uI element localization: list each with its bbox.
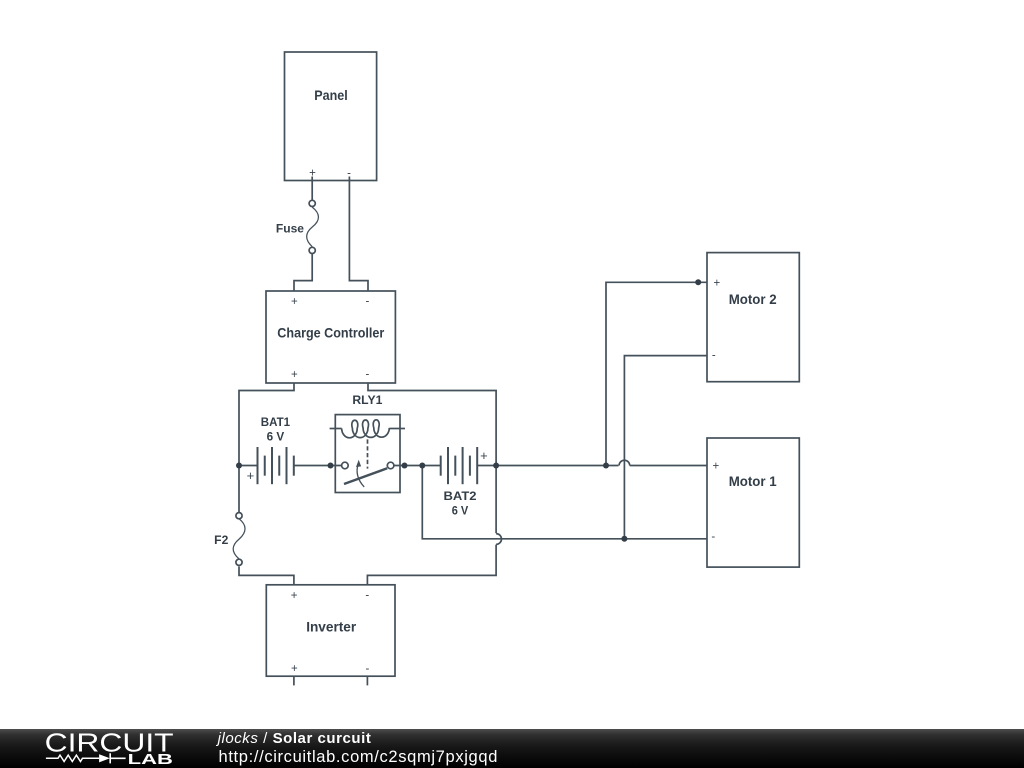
relay actuation arrow [357, 464, 364, 487]
relay switch left pin circle [342, 462, 349, 469]
wire CC- down right rail [368, 383, 496, 466]
relay coil left stub [330, 428, 342, 430]
svg-text:RLY1: RLY1 [352, 395, 383, 407]
svg-text:+: + [291, 296, 298, 308]
svg-text:Motor 1: Motor 1 [729, 473, 777, 489]
fuse Fuse terminal circle bottom [309, 247, 315, 253]
battery BAT2 plates [441, 447, 478, 484]
fuse Fuse wavy element [307, 207, 319, 247]
wire BAT2 to bus toward motors [477, 465, 618, 467]
charge controller box [266, 291, 395, 383]
svg-text:+: + [712, 461, 719, 473]
fuse F2 terminal circle top [236, 513, 242, 519]
svg-text:+: + [480, 448, 488, 463]
wire left rail to BAT1 [239, 465, 258, 467]
node dot relay right [402, 463, 408, 469]
footer bar [0, 729, 1024, 768]
logo diode cathode bar and lead [110, 753, 125, 763]
wire BAT1 to relay left pin [294, 465, 342, 467]
wire Panel+ to fuse [311, 181, 313, 200]
logo resistor zigzag [46, 755, 99, 761]
svg-text:6 V: 6 V [452, 506, 469, 518]
svg-text:+: + [291, 663, 298, 675]
wire CC+ down to left rail [239, 383, 294, 512]
wire right rail to Inverter - [367, 545, 496, 585]
svg-text:F2: F2 [214, 535, 228, 547]
inverter box [266, 585, 395, 676]
svg-text:BAT2: BAT2 [444, 491, 477, 503]
battery BAT1 plates [258, 447, 294, 484]
wire right rail junction down to hop [495, 466, 497, 534]
wire Panel- to Charge Controller - [349, 181, 368, 292]
svg-text:+: + [291, 369, 298, 381]
svg-text:Fuse: Fuse [276, 224, 304, 236]
wire hop bus over motor2 negative wire [619, 460, 630, 465]
pin stub Panel + interior [311, 177, 313, 181]
relay RLY1 box [335, 415, 400, 493]
node dot motor2+ branch on bus [603, 463, 609, 469]
svg-text:-: - [365, 295, 369, 307]
svg-text:-: - [365, 589, 369, 601]
pin Inverter bottom + stub [293, 676, 295, 685]
wire hop right rail over battery loop [496, 534, 501, 545]
node dot BAT2 left branch [419, 463, 425, 469]
wire bus to Motor 1 + [630, 465, 707, 467]
fuse Fuse terminal circle top [309, 200, 315, 206]
svg-text:-: - [365, 369, 369, 381]
node dot motor2- joins battery loop [621, 536, 627, 542]
svg-text:BAT1: BAT1 [261, 417, 291, 429]
wire F2 to Inverter + [239, 566, 294, 584]
svg-text:-: - [365, 663, 369, 675]
node dot BAT1 relay [328, 463, 334, 469]
footer title line [218, 730, 372, 747]
node dot right rail bus [493, 463, 499, 469]
svg-text:+: + [291, 590, 298, 602]
wire BAT2 bottom loop [422, 466, 707, 539]
node dot motor2+ near pin [695, 279, 701, 285]
wire Motor 2 + lead [606, 282, 707, 465]
svg-text:LAB: LAB [128, 752, 173, 768]
svg-text:+: + [247, 468, 255, 483]
motor 1 box [707, 438, 799, 567]
relay coil winding [342, 420, 390, 438]
fuse F2 terminal circle bottom [236, 559, 242, 565]
relay switch blade [344, 468, 387, 484]
svg-text:-: - [711, 531, 715, 543]
relay switch right pin circle [387, 462, 394, 469]
svg-text:Charge Controller: Charge Controller [277, 325, 384, 341]
wire relay right pin to BAT2 [394, 465, 441, 467]
motor 2 box [707, 253, 799, 382]
pin stub Panel - interior [348, 177, 350, 181]
node dot left rail BAT1 [236, 463, 242, 469]
svg-text:6 V: 6 V [267, 431, 285, 443]
svg-text:Inverter: Inverter [306, 619, 357, 635]
svg-text:-: - [712, 350, 716, 362]
wire fuse to Charge Controller + [294, 254, 312, 291]
panel box Panel [285, 52, 377, 181]
pin Inverter bottom - stub [366, 676, 368, 685]
svg-text:Motor 2: Motor 2 [729, 291, 777, 307]
wire Motor 2 - lead [624, 356, 707, 539]
relay dashed actuation line [367, 439, 369, 468]
svg-text:Panel: Panel [314, 87, 348, 103]
logo diode triangle [99, 754, 110, 762]
fuse F2 wavy element [233, 519, 245, 559]
footer url line [219, 748, 499, 767]
svg-text:+: + [714, 278, 721, 290]
relay coil right stub [390, 428, 406, 430]
